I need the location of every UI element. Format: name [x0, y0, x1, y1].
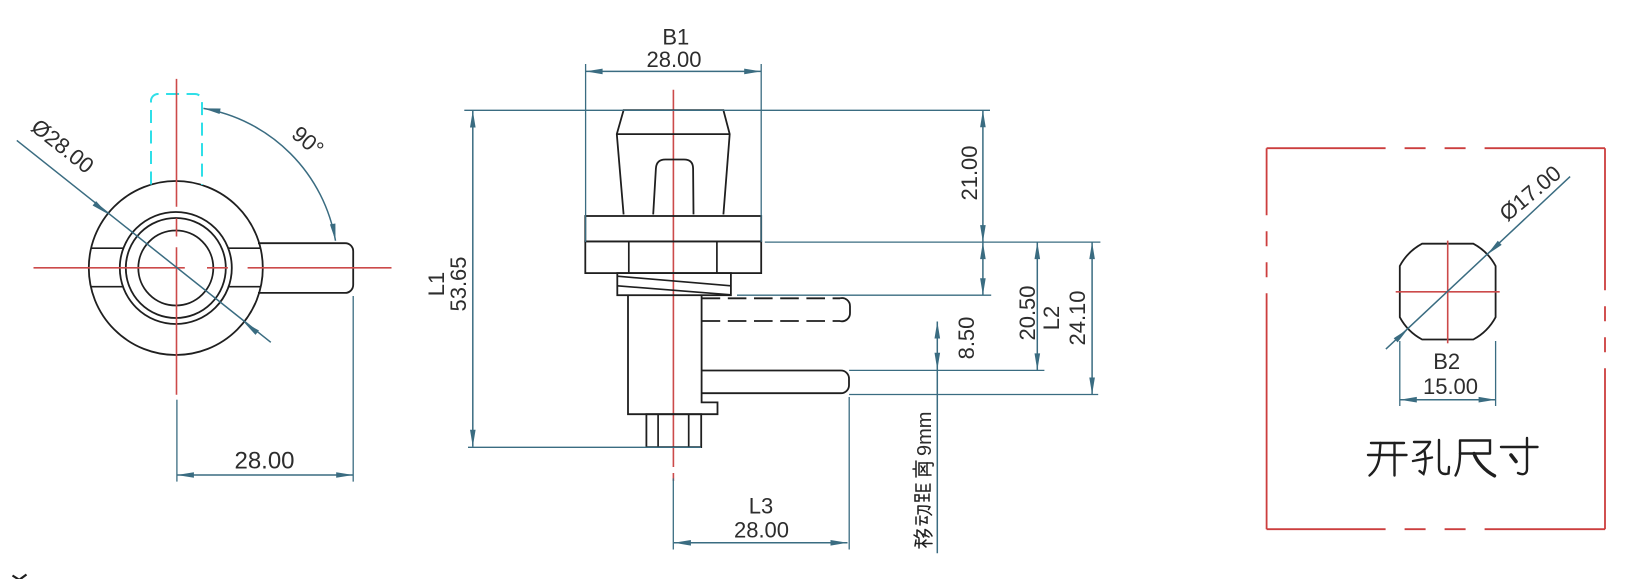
left view alternate lever position (cyan dashed) [151, 94, 202, 185]
B2 arrow right [1479, 397, 1496, 403]
hex nut [585, 241, 761, 273]
diameter 17 arrow lower [1394, 329, 1408, 343]
diameter 17 arrow upper [1487, 241, 1501, 255]
svg-text:Ø28.00: Ø28.00 [27, 114, 99, 178]
left view horizontal centerline [34, 267, 185, 269]
upper lever end cap [840, 298, 850, 321]
left 28.00 extension line a [176, 400, 178, 482]
cutout horizontal centerline [1396, 291, 1500, 293]
svg-text:8.50: 8.50 [954, 317, 979, 360]
svg-text:53.65: 53.65 [446, 256, 471, 311]
diameter 28 dimension line [17, 140, 271, 342]
B1 arrow right [744, 69, 761, 75]
movement distance text (rotated) [913, 412, 936, 548]
L3 arrow right [831, 540, 848, 546]
movement arrow down [935, 353, 941, 370]
svg-text:L3: L3 [749, 494, 773, 519]
knob face line [617, 133, 730, 135]
hex nut facet line b [716, 241, 718, 273]
L2 arrow top [1089, 242, 1095, 259]
cutout vertical centerline [1447, 241, 1449, 344]
L2 dimension line [1091, 242, 1093, 394]
left view outer circle [89, 181, 263, 355]
L1 arrow top [470, 111, 476, 128]
L2 arrow bottom [1089, 378, 1095, 395]
CJK text: chi (rule) [1456, 441, 1495, 476]
90 degree sweep arc [203, 108, 335, 240]
L1 dimension line [472, 111, 474, 447]
panel outline left [1266, 148, 1268, 529]
L1 arrow bottom [470, 430, 476, 447]
diameter 28 arrow lower [244, 322, 259, 335]
diameter 28 arrow upper [93, 201, 108, 214]
hex nut facet line a [628, 241, 630, 273]
20.50 dimension line [1036, 242, 1038, 370]
svg-text:28.00: 28.00 [234, 448, 294, 475]
terminal pin divider b [688, 414, 690, 447]
svg-text:9mm: 9mm [914, 412, 936, 456]
B2 dimension line [1400, 399, 1496, 401]
knob slot [653, 160, 693, 215]
21.00 arrow bottom [980, 225, 986, 242]
L3 extension line left [672, 478, 674, 549]
L3 dimension line [674, 542, 848, 544]
B2 extension line left [1399, 341, 1401, 406]
panel outline right [1604, 148, 1606, 529]
left 28.00 dimension line [177, 474, 353, 476]
lock washer diagonal b [617, 286, 731, 295]
panel outline top [1267, 147, 1605, 149]
lower-lever-top extension line [849, 369, 1044, 371]
movement arrow up [935, 322, 941, 339]
8.50 arrow bottom [980, 278, 986, 295]
svg-text:24.10: 24.10 [1065, 290, 1090, 345]
upper lever dashed top [702, 297, 840, 299]
svg-text:B1: B1 [662, 25, 689, 50]
flange [585, 216, 761, 241]
B1 dimension line [586, 70, 762, 72]
L1 bottom extension line [468, 446, 701, 448]
B2 extension line right [1495, 341, 1497, 406]
middle vertical centerline (red) [672, 90, 674, 467]
svg-text:L2: L2 [1039, 306, 1064, 330]
svg-text:28.00: 28.00 [646, 47, 701, 72]
movement distance dimension line [936, 322, 938, 554]
left view flat chord [91, 286, 123, 288]
20.50 arrow top [1035, 242, 1041, 259]
svg-text:B2: B2 [1433, 349, 1460, 374]
20.50 arrow bottom [1035, 353, 1041, 370]
panel cutout shape [1400, 244, 1496, 340]
upper lever dashed bottom [702, 320, 840, 322]
flange-bottom extension line [765, 241, 1101, 243]
90 arc end arrow [330, 224, 336, 241]
svg-text:15.00: 15.00 [1423, 374, 1478, 399]
lower lever [702, 371, 849, 394]
lock washer [617, 273, 731, 295]
21.00 dimension line [982, 110, 984, 242]
L1 top extension line [464, 109, 990, 111]
left view vertical centerline [176, 79, 178, 207]
left view bezel ring inner [126, 218, 226, 318]
90 arc start arrow [203, 108, 220, 114]
svg-text:21.00: 21.00 [957, 145, 982, 200]
switch body [628, 295, 718, 414]
bottom-left cropped mark [13, 575, 27, 579]
panel outline bottom [1267, 528, 1605, 530]
CJK text: kong (hole) [1413, 440, 1449, 474]
lock washer diagonal a [617, 276, 731, 286]
left view inner hole circle [138, 231, 213, 306]
L3 extension line right [848, 397, 850, 550]
svg-text:28.00: 28.00 [734, 518, 789, 543]
lower-lever-bottom extension line [849, 394, 1098, 396]
svg-text:Ø17.00: Ø17.00 [1495, 160, 1566, 226]
left view flat chord [91, 247, 123, 249]
L3 arrow left [674, 540, 691, 546]
terminal pin block [646, 414, 701, 447]
B1 arrow left [586, 69, 603, 75]
CJK text: kai (open) [1368, 443, 1407, 476]
8.50 arrow top [980, 242, 986, 259]
left view bezel ring outer [120, 212, 232, 324]
left 28.00 arrow right [336, 472, 353, 478]
body-top extension line [737, 294, 991, 296]
left 28.00 arrow left [177, 472, 194, 478]
B1 extension line right [760, 64, 762, 242]
knob outline [617, 110, 730, 214]
B2 arrow left [1400, 397, 1417, 403]
left 28.00 extension line b [352, 296, 354, 482]
terminal pin divider a [657, 414, 659, 447]
left view lever (side position) [258, 243, 353, 293]
B1 extension line left [585, 64, 587, 242]
21.00 arrow top [980, 110, 986, 127]
CJK text: cun (inch) [1501, 438, 1538, 474]
svg-text:20.50: 20.50 [1015, 285, 1040, 340]
8.50 dimension line [982, 242, 984, 295]
diameter 17 dimension line [1386, 177, 1570, 350]
